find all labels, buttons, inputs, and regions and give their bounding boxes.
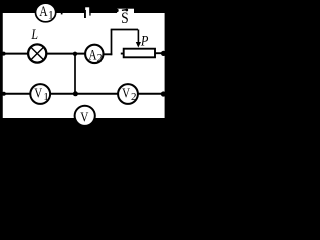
junction dot at (75,53.6)	[73, 52, 77, 56]
junction dot at left bus, row 3	[2, 92, 6, 96]
junction dot at (75,93.7)	[73, 91, 78, 96]
slider shaft down at x=138	[137, 30, 139, 43]
label I bottom serif poking below band	[61, 13, 63, 15]
left bus wire (image edge)	[0, 0, 3, 151]
svg-text:1: 1	[43, 91, 49, 103]
ammeter A1	[36, 3, 56, 22]
junction dot at right bus, rheostat row	[161, 51, 166, 56]
rheostat P body	[124, 49, 155, 58]
svg-text:2: 2	[97, 50, 103, 64]
switch notch white patch	[117, 9, 134, 13]
wire corner: vertical at x=111.5 up to rail	[111, 30, 113, 56]
svg-text:A: A	[39, 2, 47, 19]
battery long plate	[89, 7, 90, 16]
battery short plate	[84, 10, 86, 18]
vertical wire from row2 junction down to row3 junction	[74, 54, 76, 94]
wire: A2 up-and-over to slider, horizontal y=54.3	[104, 53, 113, 55]
wire: rheostat to right bus	[155, 52, 165, 54]
slider arrowhead	[136, 42, 141, 48]
wire: V2 to right bus, y=93.7	[138, 93, 166, 95]
svg-text:1: 1	[48, 7, 54, 21]
right bus wire (image edge)	[165, 0, 168, 151]
svg-text:V: V	[34, 85, 42, 101]
rheostat left terminal tab	[121, 53, 124, 55]
switch S lever end knob	[125, 9, 128, 12]
svg-text:V: V	[80, 109, 88, 124]
ammeter A2	[85, 45, 103, 63]
voltmeter V	[75, 106, 95, 126]
background: transparent zones stored as black	[0, 0, 168, 151]
junction dot at left bus, row 2	[2, 52, 6, 56]
voltmeter V2	[118, 84, 138, 104]
battery notch white patch in top band	[85, 7, 89, 13]
wire: V1 to V2, y=93.7	[50, 93, 119, 95]
rail wire y=29.5 to slider	[111, 29, 138, 31]
svg-text:L: L	[31, 26, 39, 42]
svg-text:2: 2	[131, 91, 137, 103]
svg-text:P: P	[140, 32, 148, 48]
wire: left bus to lamp, y=53.6	[2, 53, 28, 55]
switch S lever	[122, 9, 126, 12]
wire: lamp to A2, y=53.6	[46, 53, 85, 55]
svg-text:V: V	[122, 85, 130, 101]
voltmeter V1	[30, 84, 50, 104]
wire: left bus to V1, y=93.7	[2, 93, 30, 95]
switch S pivot terminal	[115, 9, 118, 12]
lamp L (circle with X)	[28, 44, 46, 62]
junction dot at right bus, row 3	[161, 91, 166, 96]
svg-text:S: S	[121, 10, 129, 27]
white drawing field	[3, 13, 165, 118]
